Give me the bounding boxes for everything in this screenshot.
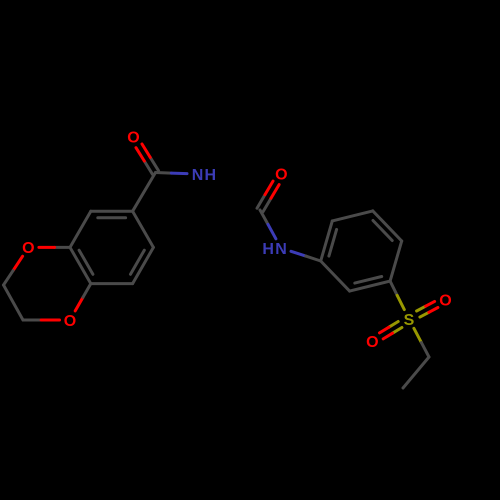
aromatic bond C8a=C8 (benzene lower-left edge, double) — [70, 247, 93, 283]
svg-text:H: H — [262, 241, 274, 258]
svg-text:O: O — [439, 292, 451, 309]
aromatic bond C6-C5 (benzene upper-right edge) — [133, 211, 154, 247]
svg-text:O: O — [366, 334, 378, 351]
svg-text:H: H — [205, 167, 217, 184]
svg-text:S: S — [404, 312, 415, 329]
atom label NH (amide 1 nitrogen) — [192, 167, 216, 184]
bond O1'-CH2 (dioxane) — [4, 256, 23, 285]
atom label HN (anilide nitrogen) — [262, 241, 286, 258]
svg-text:O: O — [64, 313, 76, 330]
bond CH2-O4' (dioxane) — [23, 319, 60, 322]
double bond S=O (sulfonyl oxygen right) — [417, 301, 438, 317]
bond C8-O1' (aryl ether to dioxane O left) — [39, 246, 70, 249]
aromatic bond C1''=C2'' (phenyl left edge, double) — [321, 221, 337, 261]
double bond C1=O1 (amide 1 carbonyl) — [136, 144, 159, 174]
bond S-CH2 (ethyl on sulfonyl) — [414, 328, 429, 357]
double bond C2=O2 (amide 2 carbonyl) — [257, 181, 279, 212]
bond C5''-S (aryl to sulfonyl sulfur) — [390, 281, 404, 310]
double bond S=O (sulfonyl oxygen left) — [380, 322, 402, 339]
aromatic bond C3''=C4'' (phenyl upper-right edge, double) — [373, 211, 402, 241]
svg-text:N: N — [192, 167, 204, 184]
bond N2-C1'' (anilide N to phenyl ipso) — [291, 251, 321, 261]
aromatic bond C5=C4a (benzene lower-right edge, double) — [131, 247, 154, 283]
aromatic bond C8-C7a (benzene upper-left edge) — [70, 211, 91, 247]
bond CH2-CH2 (dioxane) — [4, 285, 24, 320]
bond C1-ring (carbonyl to benzene C6) — [133, 173, 156, 212]
aromatic bond C7a=C6 (benzene top edge, double) — [91, 211, 133, 218]
bond C1-N1 (amide 1 C-N) — [156, 173, 188, 174]
svg-text:O: O — [127, 130, 139, 147]
aromatic bond C4a-C8a (benzene bottom edge) — [91, 282, 133, 285]
svg-text:N: N — [275, 241, 287, 258]
aromatic bond C5''=C6'' (phenyl lower edge, double) — [350, 277, 391, 292]
svg-text:O: O — [22, 240, 34, 257]
aromatic bond C6''-C1'' (phenyl lower-left edge) — [321, 261, 350, 291]
aromatic bond C2''-C3'' (phenyl top edge) — [332, 211, 373, 221]
svg-text:O: O — [275, 167, 287, 184]
bond CH2-CH3 (ethyl tail) — [403, 357, 429, 388]
bond C2-N2 (amide 2 C-N) — [260, 210, 276, 239]
aromatic bond C4''-C5'' (phenyl right edge) — [390, 241, 402, 281]
bond O4'-C8a (aryl ether to dioxane O bottom) — [75, 284, 91, 311]
